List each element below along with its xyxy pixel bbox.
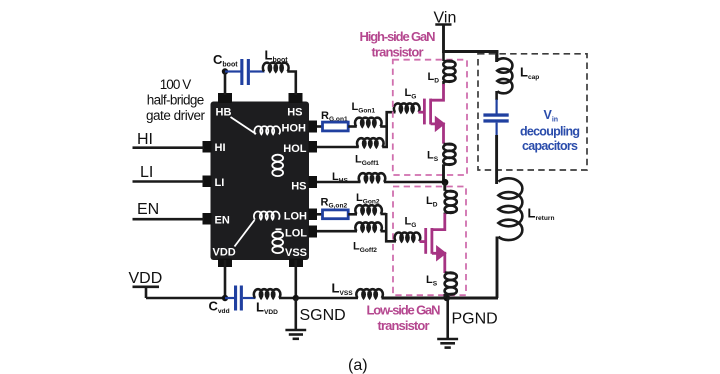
svg-text:VSS: VSS <box>285 247 307 259</box>
ground SGND <box>285 298 306 339</box>
resistor RG,on1 <box>323 122 349 131</box>
svg-text:SGND: SGND <box>300 307 346 324</box>
svg-text:HS: HS <box>287 107 302 119</box>
node Cvdd <box>222 295 228 301</box>
wire LI <box>133 180 205 183</box>
pin HS (right) <box>309 176 318 188</box>
wire RG,on2 to LGon2 <box>348 213 357 216</box>
internal bondwire lead VDD-LOH <box>235 220 255 247</box>
inductor LVSS <box>356 289 383 298</box>
wire LHS to switch node <box>384 181 444 184</box>
wire Cboot node to HB pin <box>224 72 227 96</box>
wire HOL to LGoff1 <box>317 146 359 149</box>
svg-text:LOH: LOH <box>284 211 307 223</box>
svg-text:gate driver: gate driver <box>146 108 206 123</box>
svg-text:half-bridge: half-bridge <box>147 93 205 108</box>
label: 100 V half-bridge gate driver <box>146 77 206 123</box>
label high-side GaN transistor <box>360 29 436 60</box>
svg-text:HOL: HOL <box>283 143 307 155</box>
inductor LS high <box>443 144 455 184</box>
internal tick LOL <box>276 228 282 230</box>
pin HS top <box>289 93 303 103</box>
inductor LD low <box>445 182 457 215</box>
wire PGND to Lreturn <box>447 297 498 300</box>
pin HI (left) <box>203 141 212 153</box>
pin VSS (bottom) <box>289 259 303 268</box>
node switch <box>442 179 449 186</box>
label Vin decoupling capacitors <box>520 108 580 153</box>
svg-text:HOH: HOH <box>282 123 307 135</box>
svg-text:LOL: LOL <box>285 228 307 240</box>
dashed box low-side transistor <box>393 187 466 296</box>
svg-text:Low-side GaN: Low-side GaN <box>367 303 441 318</box>
internal bondwire inductor HOL-HS <box>272 155 283 176</box>
inductor LGoff2 <box>355 222 382 231</box>
svg-text:decoupling: decoupling <box>520 125 580 139</box>
wire Cdecoupling to Lreturn <box>495 135 498 184</box>
wire VSS pin down <box>294 260 297 298</box>
wire LVDD to SGND node <box>279 297 296 300</box>
wire Lboot to HS pin <box>287 72 296 96</box>
node PGND <box>443 294 450 301</box>
inductor LS low <box>445 273 457 298</box>
wire LGon1 to gate node <box>380 125 387 128</box>
dashed box high-side transistor <box>393 60 467 175</box>
capacitor Cdecoupling <box>483 100 508 137</box>
internal bondwire lead HB-HOH <box>231 117 257 134</box>
node Cboot <box>222 68 228 74</box>
inductor LG high <box>394 103 420 112</box>
pin EN (left) <box>203 213 212 225</box>
wire LOH to RG,on2 <box>317 213 323 216</box>
svg-text:VDD: VDD <box>213 247 236 259</box>
inductor LG low <box>395 232 421 241</box>
capacitor Cboot <box>225 59 265 85</box>
inductor LD high <box>443 52 455 86</box>
supply terminal VDD <box>129 270 163 298</box>
ground PGND <box>437 298 458 348</box>
svg-text:HS: HS <box>291 181 306 193</box>
wire HOH to RG,on1 <box>317 125 323 128</box>
dashed box Vin decoupling capacitors <box>478 54 587 170</box>
svg-text:transistor: transistor <box>372 45 424 60</box>
wire HI <box>133 146 205 149</box>
inductor LVDD <box>254 289 281 298</box>
svg-text:transistor: transistor <box>378 318 430 333</box>
inductor LGon1 <box>355 118 382 127</box>
svg-text:(a): (a) <box>348 357 368 374</box>
pin LOH (right) <box>309 209 318 221</box>
supply terminal Vin <box>434 10 457 54</box>
label low-side GaN transistor <box>367 303 441 334</box>
svg-text:capacitors: capacitors <box>522 139 578 153</box>
wire LVSS to PGND node <box>382 297 448 300</box>
wire gate merge low side <box>381 213 397 241</box>
svg-text:EN: EN <box>137 201 159 218</box>
inductor LGon2 <box>355 205 382 214</box>
wire VDD rail <box>146 297 225 300</box>
node SGND <box>293 295 299 301</box>
svg-text:HI: HI <box>137 131 153 148</box>
wire LOL to LGoff2 <box>317 230 357 233</box>
svg-text:LI: LI <box>140 164 153 181</box>
wire gate merge high side <box>382 112 395 147</box>
wire EN <box>133 218 205 221</box>
svg-text:HI: HI <box>215 142 226 154</box>
svg-text:PGND: PGND <box>452 311 498 328</box>
resistor RG,on2 <box>323 210 349 219</box>
svg-text:EN: EN <box>215 215 230 227</box>
svg-text:HB: HB <box>216 107 232 119</box>
wire VDD pin down <box>224 260 227 298</box>
svg-text:100 V: 100 V <box>160 77 192 92</box>
wire Vin to decoupling <box>444 52 498 61</box>
pin LI (left) <box>203 176 212 188</box>
transistor Q1 high-side GaN <box>418 84 445 144</box>
pin HOL (right) <box>309 141 318 153</box>
inductor Lcap <box>497 52 513 101</box>
svg-text:High-side GaN: High-side GaN <box>360 29 436 44</box>
inductor LGoff1 <box>357 138 384 147</box>
capacitor Cvdd <box>225 286 256 311</box>
internal bondwire inductor HOH <box>254 126 280 134</box>
gate driver IC U1 body <box>211 102 310 261</box>
inductor LHS <box>359 173 386 182</box>
pin VDD (bottom) <box>218 259 232 268</box>
internal bondwire inductor LOH <box>254 211 280 219</box>
inductor Lreturn <box>497 178 522 298</box>
internal bondwire inductor LOL-VSS <box>272 232 283 253</box>
pin HOH (right) <box>309 121 318 133</box>
pin LOL (right) <box>309 226 318 238</box>
svg-text:VDD: VDD <box>129 270 163 287</box>
wire SGND to LVSS <box>296 297 358 300</box>
wire HS pin to LHS <box>317 181 361 184</box>
transistor Q2 low-side GaN <box>420 213 447 273</box>
inductor Lboot <box>263 63 289 72</box>
wire LGon2 to gate merge <box>381 213 387 216</box>
svg-text:LI: LI <box>215 177 225 189</box>
pin HB (top) <box>218 93 232 103</box>
wire RG,on1 to LGon1 <box>348 125 357 128</box>
